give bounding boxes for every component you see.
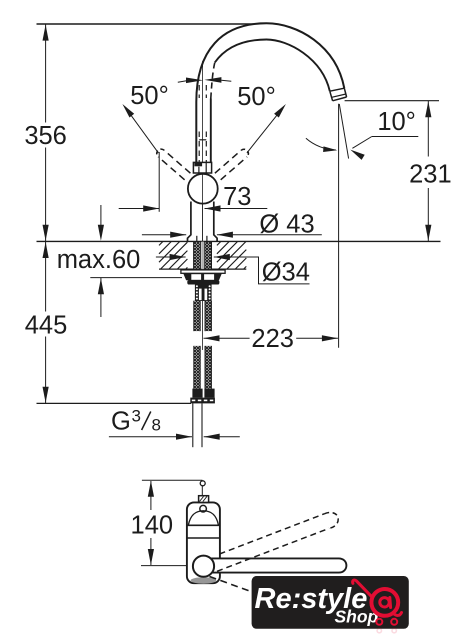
top reference line xyxy=(37,23,265,25)
leader 50° right xyxy=(247,107,283,153)
svg-text:445: 445 xyxy=(25,312,68,340)
bottom reference line (445 end) xyxy=(37,402,192,404)
leader 50° left xyxy=(125,107,158,153)
mounting nut xyxy=(183,273,222,280)
svg-text:Ø 43: Ø 43 xyxy=(259,210,314,238)
spout outer edge xyxy=(196,23,344,163)
svg-text:10°: 10° xyxy=(377,108,416,136)
threaded stud xyxy=(195,284,212,301)
dimension max.60 xyxy=(100,205,102,226)
dashed swivel spout position right xyxy=(215,150,241,173)
svg-text:73: 73 xyxy=(223,183,251,211)
body collar lines xyxy=(187,524,220,526)
countertop reference plane line xyxy=(37,240,441,242)
aerator end of spout xyxy=(330,88,345,91)
spout stub xyxy=(199,496,209,503)
svg-text:223: 223 xyxy=(251,325,294,353)
mounting plate below deck xyxy=(181,270,225,273)
dimension 231 xyxy=(425,101,431,117)
screw on body top xyxy=(200,505,207,512)
dome inside body xyxy=(188,511,218,526)
dimension Ø34 xyxy=(156,256,186,258)
logo cart handle xyxy=(353,580,372,597)
body below ball xyxy=(188,202,191,242)
collar at spout base xyxy=(193,162,211,173)
svg-text:50°: 50° xyxy=(237,83,276,111)
spout inner edge hidden (dashed) xyxy=(211,63,215,99)
Re:style Shop logo box xyxy=(252,576,409,629)
dimension 73 xyxy=(158,152,160,212)
wheel reflections xyxy=(377,628,381,632)
svg-text:140: 140 xyxy=(131,511,174,539)
ball joint xyxy=(188,174,218,204)
lever (solid, horizontal) xyxy=(204,558,347,572)
svg-text:G: G xyxy=(111,407,131,435)
G3/8 dimension arrows xyxy=(109,436,192,438)
outlet height reference line xyxy=(345,100,439,102)
hose end fittings xyxy=(192,389,202,398)
svg-text:356: 356 xyxy=(24,122,67,150)
dimension 223 xyxy=(204,335,220,341)
countertop cross-section hatch xyxy=(159,241,163,245)
flexible hoses xyxy=(193,301,200,331)
flow direction line (10° tilt) xyxy=(339,104,348,159)
spout cut mark xyxy=(200,481,205,486)
rubber seal xyxy=(187,280,219,285)
spout pipe right edge xyxy=(210,99,212,164)
logo @ ring xyxy=(371,589,398,616)
lever hub xyxy=(193,556,214,577)
side view body xyxy=(187,502,220,583)
dimension 445 xyxy=(45,241,47,311)
svg-text:Ø34: Ø34 xyxy=(262,259,310,287)
dashed swivel spout position left xyxy=(164,150,190,173)
dimension 356 xyxy=(45,24,47,123)
svg-text:231: 231 xyxy=(409,161,452,189)
outlet vertical extension line xyxy=(338,104,340,348)
svg-text:8: 8 xyxy=(152,416,161,435)
svg-text:50°: 50° xyxy=(130,82,169,110)
G3/8 connection tails xyxy=(192,403,194,447)
countertop bottom line xyxy=(159,268,246,270)
lever lowered position (dashed) xyxy=(210,577,268,598)
lever raised position (dashed) xyxy=(220,514,325,554)
svg-text:3: 3 xyxy=(132,407,141,426)
swivel width arrows at pipe top xyxy=(186,78,203,84)
body base shadow xyxy=(191,577,217,583)
logo @ inner a xyxy=(380,598,389,607)
svg-text:max.60: max.60 xyxy=(57,246,141,274)
faucet centerline xyxy=(202,61,204,350)
cartridge hidden lines (dashed) xyxy=(198,85,200,98)
spout inner edge solid xyxy=(215,40,330,92)
dimension 140 xyxy=(148,481,154,497)
logo cart wheels xyxy=(376,619,382,625)
side view: top extension line xyxy=(142,479,203,481)
shank thread in deck hole xyxy=(194,242,201,270)
spout tube silhouette xyxy=(196,23,346,163)
side view: bottom extension line xyxy=(141,565,193,567)
